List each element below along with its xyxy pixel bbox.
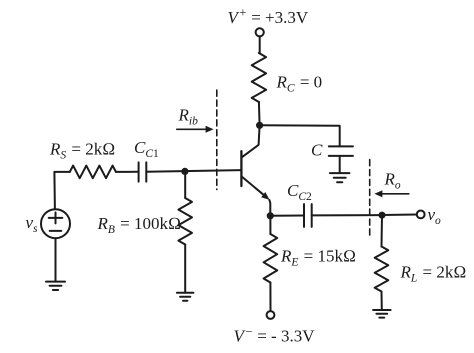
capacitor C (329, 145, 353, 147)
wire Ro arrow (381, 193, 409, 195)
wire input main (54, 171, 69, 174)
wire collector node to capacitor C (260, 125, 340, 146)
svg-text:V− = - 3.3V: V− = - 3.3V (234, 325, 316, 346)
wire node to vo terminal (382, 214, 417, 217)
svg-text:RE = 15kΩ: RE = 15kΩ (280, 247, 356, 269)
capacitor CC2 (303, 204, 305, 227)
source vs (41, 209, 70, 238)
svg-text:Rib: Rib (178, 106, 199, 128)
node Ro reference dashed line (369, 160, 371, 237)
resistor RL (375, 247, 389, 292)
node vo terminal circle (417, 211, 425, 219)
svg-text:RL = 2kΩ: RL = 2kΩ (400, 263, 467, 285)
transistor Q1 base bar (240, 151, 242, 186)
wire node to RB (184, 171, 186, 198)
resistor RB (178, 198, 192, 245)
wire vs to ground (55, 238, 57, 281)
node output dot (379, 212, 386, 219)
node collector dot (256, 122, 263, 129)
node Rib reference dashed line (216, 90, 218, 189)
capacitor CC1 (138, 162, 140, 181)
svg-text:C: C (311, 141, 323, 160)
ground under RB (177, 292, 194, 294)
wire RE top (269, 216, 271, 234)
wire CC1 to base (146, 170, 241, 172)
wire RL to ground (381, 292, 383, 311)
wire emitter node to CC2 (270, 215, 304, 217)
svg-text:vo: vo (428, 205, 442, 227)
wire emitter to output node (268, 200, 271, 216)
ground under RL (373, 309, 391, 311)
transistor Q1 emitter (242, 177, 266, 197)
wire RB to ground (184, 245, 186, 293)
wire CC2 to output node (312, 214, 382, 216)
svg-text:Ro: Ro (384, 170, 401, 192)
resistor RE (264, 234, 278, 283)
wire V+ terminal to RC top (258, 36, 261, 53)
wire RE to V- terminal (269, 283, 271, 312)
svg-text:vs: vs (26, 213, 39, 235)
node VCC terminal circle (256, 28, 264, 36)
svg-text:RB = 100kΩ: RB = 100kΩ (97, 214, 182, 236)
svg-text:CC1: CC1 (134, 138, 159, 160)
wire C bottom plate to ground (339, 156, 341, 173)
node emitter dot (267, 212, 274, 219)
resistor RS (70, 166, 116, 179)
svg-text:RS = 2kΩ: RS = 2kΩ (49, 140, 115, 162)
wire Rib arrow (177, 128, 208, 130)
wire vs to input corner (53, 173, 56, 210)
ground under C (330, 172, 350, 174)
wire RC bottom to collector node (258, 102, 261, 125)
wire collector vertical (242, 125, 260, 157)
resistor RC (252, 53, 266, 102)
wire RS to CC1 (116, 171, 139, 173)
ground under vs (46, 281, 65, 283)
node V- terminal circle (267, 311, 275, 319)
svg-text:V+ = +3.3V: V+ = +3.3V (228, 6, 309, 28)
svg-text:RC = 0: RC = 0 (276, 73, 323, 95)
svg-text:CC2: CC2 (287, 181, 312, 203)
wire RL top (381, 215, 384, 246)
node B (base/RB junction) (181, 168, 188, 175)
